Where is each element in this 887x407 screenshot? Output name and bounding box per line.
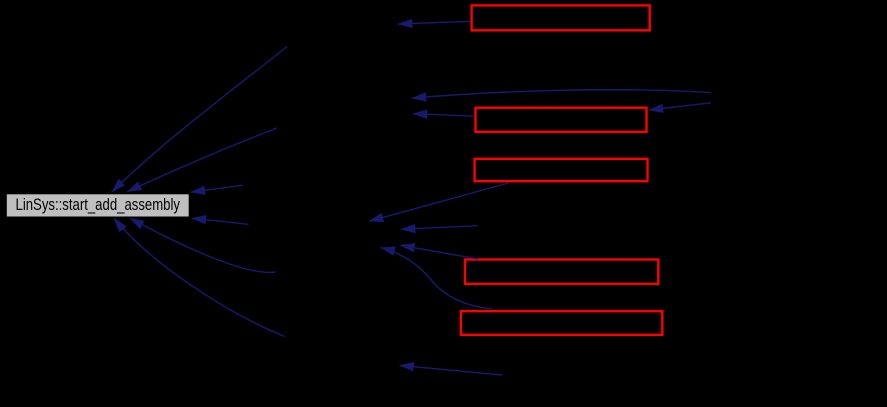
edge long curve from far-right hidden node to hidden node, arrow left [412, 90, 711, 98]
svg-text:LinSys::start_add_assembly: LinSys::start_add_assembly [16, 195, 181, 214]
edge long line into gray box bottom (right) [114, 218, 285, 336]
node box R5 (red) [461, 311, 662, 335]
edge curve into gray box top (right) [127, 128, 277, 192]
edge from R3 bottom to hidden node [369, 183, 508, 221]
edge long curve into gray box top (left) [112, 47, 287, 193]
edge short into gray box right-top [191, 185, 243, 192]
edge from R4 top to hidden node [401, 245, 478, 259]
edge from far-right hidden node into R2 right edge [649, 103, 711, 110]
node box R2 (red) [476, 108, 647, 132]
edge from R1 to hidden node, arrow left [398, 21, 470, 24]
edge S-curve from R5 top to hidden node [381, 248, 493, 309]
edge from hidden node to hidden node (mid) [401, 226, 477, 230]
edge curve into gray box bottom (left) [130, 218, 276, 272]
node box R1 (red) [472, 5, 650, 30]
node box R3 (red) [475, 159, 648, 181]
node LinSys::start_add_assembly (current, gray) [6, 194, 189, 217]
edge bottom from hidden node to hidden node [400, 365, 502, 375]
node box R4 (red) [465, 260, 658, 284]
edge short into gray box right-bottom [192, 218, 249, 224]
edge from R2 left to hidden node [413, 114, 474, 117]
